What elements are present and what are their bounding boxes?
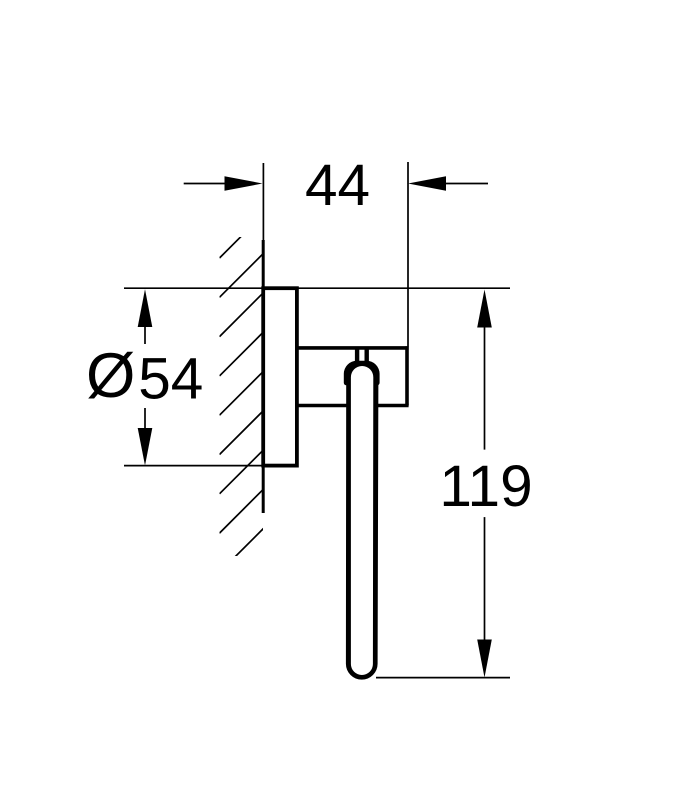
dimension 119 line lower xyxy=(484,517,486,640)
extension line 44 right xyxy=(407,162,409,347)
hinge sleeve (ring head) xyxy=(344,361,380,386)
extension line bottom (119 bottom) xyxy=(376,677,510,679)
arrowhead 119 top xyxy=(477,290,492,328)
arm top edge xyxy=(297,346,409,350)
dimension diameter-54 line lower xyxy=(144,408,146,445)
svg-text:Ø: Ø xyxy=(86,341,135,411)
extension line top (plate top / 119 top) xyxy=(124,287,510,289)
arm bottom edge right part xyxy=(378,404,409,408)
dimension diameter-54 line upper xyxy=(144,310,146,344)
arrowhead 44 right xyxy=(408,176,446,191)
arrowhead d54 bottom xyxy=(138,428,153,466)
dimension 119 line upper xyxy=(484,310,486,450)
arrowhead 119 bottom xyxy=(477,640,492,678)
ring tube outer xyxy=(346,375,379,680)
svg-text:44: 44 xyxy=(305,153,370,218)
hatching (wall section) xyxy=(220,214,264,572)
ring inner hole (white) xyxy=(351,366,373,675)
wall plate (rosette side view) xyxy=(263,288,297,465)
hinge post bars xyxy=(355,347,359,365)
extension line wall face above (44 left) xyxy=(262,163,264,240)
extension line bottom of plate (diameter 54 bottom) xyxy=(124,465,264,467)
svg-text:119: 119 xyxy=(439,454,532,519)
svg-text:54: 54 xyxy=(138,347,203,412)
dimension 44 line left xyxy=(184,183,235,185)
arm right edge xyxy=(405,346,409,405)
arm bottom edge left part xyxy=(297,404,348,408)
arrowhead 44 left xyxy=(225,176,263,191)
arrowhead d54 top xyxy=(138,289,153,327)
wall face line xyxy=(262,240,265,513)
dimension 44 line right xyxy=(436,183,488,185)
